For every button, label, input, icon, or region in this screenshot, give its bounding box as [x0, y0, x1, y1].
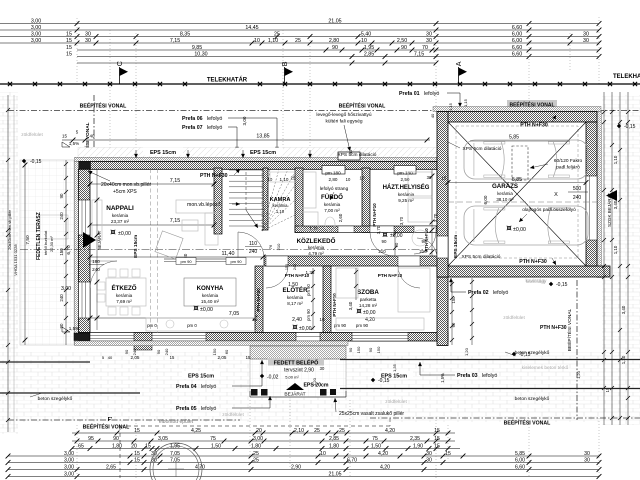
- armchair rotated nappali: [155, 231, 183, 259]
- level marker -0,15 at 519: [512, 352, 516, 356]
- svg-text:pm 90: pm 90: [356, 323, 369, 328]
- extension line x=77: [76, 18, 78, 84]
- bottom extension line x=529: [528, 418, 530, 478]
- svg-text:90: 90: [368, 347, 373, 352]
- svg-text:EPS 15cm: EPS 15cm: [133, 235, 139, 258]
- svg-text:1,95: 1,95: [364, 45, 374, 51]
- svg-text:7,15: 7,15: [414, 51, 424, 57]
- svg-text:150: 150: [59, 248, 64, 256]
- svg-text:90: 90: [124, 349, 129, 354]
- svg-text:kerámia: kerámia: [202, 293, 219, 298]
- svg-text:PTH N+F30: PTH N+F30: [540, 325, 567, 331]
- svg-text:±0,00: ±0,00: [118, 231, 131, 237]
- bath fixtures: [300, 172, 316, 208]
- wall bottom exterior: [79, 333, 449, 342]
- svg-text:6,00: 6,00: [515, 457, 525, 463]
- svg-text:elbontott épület: elbontott épület: [159, 419, 194, 425]
- svg-text:pm 90: pm 90: [230, 259, 242, 264]
- svg-text:EPS 15cm: EPS 15cm: [150, 150, 176, 156]
- svg-text:240: 240: [59, 294, 64, 302]
- label EPS 15cm top a: [143, 148, 183, 156]
- svg-text:6,60: 6,60: [512, 51, 522, 57]
- level -0,15 terrace: [22, 159, 26, 163]
- svg-text:40: 40: [430, 113, 435, 118]
- garage wall left: [437, 112, 448, 278]
- svg-text:3,00: 3,00: [64, 464, 74, 470]
- svg-text:38,10 m²: 38,10 m²: [496, 197, 514, 202]
- kamra shelves: [270, 172, 296, 182]
- label EPS 15cm b1: [182, 371, 220, 379]
- svg-text:±0,00: ±0,00: [299, 326, 312, 332]
- svg-text:240: 240: [132, 348, 137, 355]
- svg-text:240: 240: [92, 267, 100, 272]
- entry bejarat triangle: [286, 383, 304, 390]
- svg-text:15: 15: [66, 38, 72, 44]
- svg-text:-0,02: -0,02: [267, 375, 279, 381]
- svg-text:Prefa 05: Prefa 05: [176, 406, 197, 412]
- svg-text:110: 110: [249, 241, 257, 247]
- leader heat pump: [344, 125, 350, 151]
- car 1 garage: [464, 140, 588, 179]
- svg-text:8,35: 8,35: [180, 31, 190, 37]
- svg-text:7,69 m²: 7,69 m²: [116, 299, 132, 304]
- svg-text:90: 90: [59, 193, 64, 198]
- svg-text:90: 90: [401, 45, 407, 51]
- svg-text:30: 30: [583, 31, 589, 37]
- section flag C: [115, 61, 128, 84]
- svg-text:95: 95: [88, 436, 94, 442]
- door hazt: [414, 226, 436, 233]
- svg-text:40: 40: [108, 355, 113, 360]
- svg-text:3,00: 3,00: [31, 25, 41, 31]
- svg-text:25: 25: [314, 428, 320, 434]
- bottom extension line x=350: [349, 400, 351, 478]
- svg-text:1,35: 1,35: [392, 363, 397, 372]
- svg-text:240: 240: [59, 212, 64, 220]
- top dimension line 6: [66, 51, 601, 59]
- svg-text:30: 30: [85, 31, 91, 37]
- svg-text:30: 30: [584, 457, 590, 463]
- svg-text:9,25 m²: 9,25 m²: [398, 198, 414, 203]
- bottom extension line x=436: [435, 420, 437, 478]
- svg-text:pm 90: pm 90: [306, 284, 311, 296]
- curb line left bottom: [0, 392, 140, 394]
- svg-text:2,80: 2,80: [329, 177, 338, 182]
- curb line right top: [340, 359, 640, 361]
- dim line 13,85: [62, 139, 430, 141]
- garage wall right: [586, 122, 597, 266]
- svg-text:150: 150: [376, 346, 381, 353]
- svg-text:kerámia: kerámia: [287, 295, 304, 300]
- svg-text:1,15: 1,15: [463, 98, 468, 107]
- gravel strip above top wall: [78, 148, 448, 158]
- bottom dimension line 4: [6, 451, 602, 459]
- window box hazt top wall: [394, 166, 416, 175]
- svg-text:2,80: 2,80: [329, 38, 339, 44]
- interior dim chain 1: [64, 160, 68, 345]
- level marker garage: [507, 226, 512, 231]
- svg-text:1,10: 1,10: [276, 209, 285, 214]
- svg-text:térkő burkolat: térkő burkolat: [43, 230, 48, 255]
- svg-text:2,60: 2,60: [338, 213, 343, 222]
- building line bottom-left: [8, 419, 240, 421]
- svg-text:21,05: 21,05: [329, 471, 342, 477]
- svg-text:3,40: 3,40: [348, 301, 353, 310]
- svg-text:1,10: 1,10: [613, 245, 618, 254]
- svg-text:11,40: 11,40: [221, 251, 234, 257]
- top dimension line 2: [0, 25, 601, 33]
- svg-text:PTH N+F10: PTH N+F10: [378, 273, 403, 278]
- svg-text:TELEKHATÁR: TELEKHATÁR: [207, 77, 248, 84]
- svg-text:tervszint 2,90: tervszint 2,90: [284, 368, 314, 374]
- svg-text:6,60: 6,60: [512, 45, 522, 51]
- svg-text:SZOBA: SZOBA: [357, 289, 379, 296]
- svg-text:2,40: 2,40: [292, 317, 302, 323]
- svg-text:BEJÁRAT: BEJÁRAT: [97, 230, 102, 250]
- window kitchen bottom wall: [152, 333, 206, 342]
- svg-text:4,79 m²: 4,79 m²: [308, 251, 324, 256]
- svg-text:7,05: 7,05: [229, 311, 240, 317]
- extension line x=599: [598, 17, 600, 84]
- bottom extension line x=77: [76, 425, 78, 478]
- svg-text:BEÉPÍTÉSI VONAL: BEÉPÍTÉSI VONAL: [566, 308, 573, 351]
- paving texture left strip: [0, 92, 18, 434]
- bed szoba: [398, 268, 430, 312]
- level marker nappali: [111, 230, 116, 235]
- wall kamra-furdo: [295, 168, 303, 233]
- svg-text:±0,00: ±0,00: [390, 233, 403, 239]
- wall konyha-eloter: [255, 266, 263, 333]
- svg-text:10: 10: [254, 38, 260, 44]
- svg-text:5,85: 5,85: [509, 135, 519, 141]
- svg-text:4,20: 4,20: [378, 451, 388, 457]
- svg-text:75: 75: [372, 436, 378, 442]
- svg-text:GARÁZS: GARÁZS: [492, 183, 518, 190]
- axis dashed vertical b: [157, 169, 159, 333]
- svg-text:90: 90: [348, 347, 353, 352]
- svg-text:1,20: 1,20: [464, 347, 469, 356]
- window left wall upper: [79, 200, 91, 235]
- svg-text:7,15: 7,15: [170, 178, 181, 184]
- svg-text:65: 65: [78, 443, 84, 449]
- building line top-right: [437, 110, 640, 112]
- svg-text:15: 15: [434, 443, 440, 449]
- wall left exterior: [79, 169, 91, 332]
- svg-text:25: 25: [253, 451, 259, 457]
- svg-text:5: 5: [76, 130, 79, 135]
- extension line x=570: [569, 33, 571, 70]
- sofa nappali: [176, 200, 218, 213]
- tree cross: [168, 468, 184, 470]
- svg-text:1,80: 1,80: [251, 443, 261, 449]
- interior dim chain 3: [354, 268, 358, 300]
- terrace tile grid: [20, 160, 74, 345]
- svg-text:±0,00: ±0,00: [363, 310, 376, 316]
- axis dashed vertical a: [150, 169, 152, 333]
- demolished building outline: [120, 418, 390, 478]
- svg-text:25: 25: [253, 457, 259, 463]
- interior dim chain 6: [470, 278, 474, 345]
- svg-text:BEJÁRAT: BEJÁRAT: [284, 391, 305, 398]
- svg-text:kerámia: kerámia: [497, 191, 513, 196]
- garage diagonal 1: [448, 122, 586, 266]
- svg-text:3,40: 3,40: [621, 305, 626, 314]
- svg-text:EPS 15cm: EPS 15cm: [250, 150, 276, 156]
- svg-text:1,15: 1,15: [448, 102, 453, 111]
- label EPS 15cm top b: [243, 148, 283, 156]
- heat pump unit: [338, 152, 360, 160]
- svg-text:1,50: 1,50: [211, 443, 221, 449]
- svg-text:7,15: 7,15: [170, 218, 181, 224]
- door szoba-corridor: [398, 256, 420, 266]
- garage inner perimeter dashed: [456, 126, 578, 258]
- extension line x=110: [109, 30, 111, 152]
- door furdo: [370, 226, 394, 233]
- svg-text:60: 60: [224, 349, 229, 354]
- hazt fixtures: [408, 172, 432, 196]
- svg-text:40: 40: [348, 149, 353, 154]
- window szoba bottom wall: [352, 333, 408, 342]
- svg-text:5,00 m²: 5,00 m²: [285, 375, 299, 380]
- bejarat triangle terrace: [83, 232, 96, 248]
- staircase mon.vb.lepcso: [229, 169, 295, 231]
- svg-text:7,00 m²: 7,00 m²: [324, 208, 340, 213]
- svg-text:4,25: 4,25: [191, 428, 201, 434]
- svg-text:1,20: 1,20: [312, 377, 317, 386]
- svg-text:3,00: 3,00: [64, 457, 74, 463]
- bottom extension line x=599: [598, 418, 600, 478]
- svg-text:90: 90: [394, 242, 399, 247]
- interior dim chain 2: [311, 268, 315, 330]
- svg-text:20x40cm mon.vb.pillér: 20x40cm mon.vb.pillér: [101, 182, 151, 188]
- svg-text:parketta: parketta: [360, 297, 377, 302]
- svg-text:6,00: 6,00: [483, 195, 488, 204]
- svg-text:5,85: 5,85: [515, 451, 525, 457]
- svg-text:Prefa 04: Prefa 04: [176, 384, 197, 390]
- svg-text:+5cm XPS: +5cm XPS: [113, 189, 137, 195]
- building line bottom-right: [370, 417, 640, 419]
- svg-text:15: 15: [134, 457, 140, 463]
- svg-text:lefolyó: lefolyó: [201, 384, 216, 390]
- svg-text:X: X: [554, 192, 558, 198]
- svg-text:3,05: 3,05: [158, 436, 168, 442]
- extension line x=136: [135, 33, 137, 152]
- bottom dimension line 2: [72, 436, 455, 444]
- svg-text:BEÉPÍTÉSI VONAL: BEÉPÍTÉSI VONAL: [83, 423, 131, 431]
- door arc terrace door: [90, 261, 117, 288]
- svg-text:30: 30: [427, 175, 432, 180]
- svg-text:lefolyó: lefolyó: [482, 373, 497, 379]
- svg-text:-0,15: -0,15: [519, 352, 531, 358]
- svg-text:XPS 5cm dilatáció: XPS 5cm dilatáció: [462, 254, 501, 260]
- svg-text:3,00: 3,00: [31, 31, 41, 37]
- level marker konyha: [194, 306, 199, 311]
- svg-text:Prefa 06: Prefa 06: [182, 116, 203, 122]
- svg-text:PTH N+F30: PTH N+F30: [519, 259, 547, 265]
- svg-text:kerámia: kerámia: [116, 293, 133, 298]
- svg-text:zöldfelület: zöldfelület: [222, 412, 244, 418]
- svg-text:NAPPALI: NAPPALI: [106, 205, 134, 212]
- entry step lines: [250, 396, 346, 398]
- bottom extension line x=136: [135, 420, 137, 478]
- svg-text:3,00: 3,00: [31, 38, 41, 44]
- svg-text:10,30: 10,30: [194, 51, 207, 57]
- leader Prefa 07: [228, 126, 237, 128]
- svg-text:76: 76: [268, 244, 273, 249]
- level marker -0,15 at 378: [371, 378, 375, 382]
- top dimension line 3: [0, 31, 601, 39]
- leader Prefa 04: [232, 385, 262, 387]
- svg-text:240: 240: [249, 249, 258, 255]
- EPS band above top wall: [75, 157, 449, 161]
- svg-text:240: 240: [293, 264, 297, 270]
- svg-text:15: 15: [66, 51, 72, 57]
- svg-text:21,05: 21,05: [328, 18, 341, 24]
- svg-text:3,00: 3,00: [242, 116, 247, 125]
- wall furdo-hazt: [362, 168, 370, 233]
- label -0,02 entry: [260, 374, 264, 378]
- svg-text:pm 180: pm 180: [397, 171, 413, 176]
- svg-text:500: 500: [573, 186, 582, 192]
- right margin chain 1: [602, 92, 606, 425]
- svg-text:kavicságy: kavicságy: [526, 279, 547, 284]
- svg-text:4,20: 4,20: [380, 464, 390, 470]
- level marker hazt: [383, 232, 388, 237]
- svg-text:6,00: 6,00: [512, 31, 522, 37]
- svg-text:150: 150: [212, 348, 217, 355]
- building line top-left: [8, 110, 437, 112]
- svg-text:A: A: [454, 61, 463, 66]
- svg-text:beton szegélykő: beton szegélykő: [515, 396, 550, 402]
- svg-text:4,70: 4,70: [195, 464, 205, 470]
- svg-text:15,40 m²: 15,40 m²: [201, 299, 220, 304]
- pm boxes corridor wall: [176, 258, 196, 265]
- svg-text:30: 30: [85, 38, 91, 44]
- svg-text:2,35: 2,35: [410, 436, 420, 442]
- svg-text:KÖZLEKEDŐ: KÖZLEKEDŐ: [297, 238, 336, 245]
- svg-text:60: 60: [451, 322, 456, 327]
- right margin chain 3: [618, 92, 622, 425]
- svg-text:30: 30: [426, 457, 432, 463]
- svg-text:30: 30: [583, 38, 589, 44]
- svg-text:kerámia: kerámia: [273, 203, 289, 208]
- svg-text:240: 240: [164, 348, 169, 355]
- bottom dimension line 7: [6, 471, 602, 479]
- pillar 20x40 top-left corner: [79, 162, 91, 170]
- leader Prefa 05: [232, 407, 270, 409]
- level marker -0,15 at 556: [549, 282, 553, 286]
- svg-text:13,85: 13,85: [256, 134, 269, 140]
- svg-text:KONYHA: KONYHA: [197, 285, 224, 292]
- top dimension line 7: [77, 61, 438, 66]
- svg-text:ÉTKEZŐ: ÉTKEZŐ: [111, 284, 136, 292]
- svg-text:EPS 15cm: EPS 15cm: [453, 235, 459, 258]
- garage wall top: [437, 112, 597, 123]
- svg-text:TELEKHATÁR: TELEKHATÁR: [613, 73, 640, 80]
- terrace furniture: [40, 215, 68, 239]
- svg-text:15: 15: [170, 355, 175, 360]
- svg-text:15: 15: [66, 45, 72, 51]
- svg-text:padl.feljáró: padl.feljáró: [556, 165, 580, 171]
- svg-text:25x25cm vasalt zsalukő pillér: 25x25cm vasalt zsalukő pillér: [339, 411, 404, 417]
- extension line x=436: [435, 30, 437, 107]
- top dimension line 4: [0, 38, 601, 46]
- svg-text:9,85: 9,85: [192, 45, 202, 51]
- svg-text:pm 90: pm 90: [306, 309, 311, 321]
- svg-text:kerámia: kerámia: [308, 245, 325, 250]
- svg-text:FEDETLEN TERASZ: FEDETLEN TERASZ: [36, 212, 42, 260]
- svg-text:30: 30: [426, 451, 432, 457]
- wall pier below bottom wall: [134, 341, 152, 350]
- label BEEPITESI VONAL top-right: [507, 100, 557, 108]
- svg-text:-0,15: -0,15: [556, 282, 568, 288]
- svg-text:75: 75: [210, 436, 216, 442]
- bottom dimension line 6: [6, 464, 602, 472]
- svg-text:lefolyó: lefolyó: [207, 116, 222, 122]
- svg-text:2,85: 2,85: [329, 436, 339, 442]
- label EPS 15cm b2: [375, 371, 413, 379]
- svg-text:150: 150: [451, 296, 456, 304]
- svg-text:pm 180: pm 180: [325, 171, 341, 176]
- garage axis dashed: [448, 201, 597, 203]
- bottom dimension line 5: [6, 457, 602, 465]
- svg-text:7,15: 7,15: [170, 38, 180, 44]
- label EPS 20cm: [301, 381, 331, 388]
- wall stair-kamra: [263, 168, 268, 230]
- svg-text:PTH N+F30: PTH N+F30: [200, 173, 228, 179]
- svg-text:1,10: 1,10: [280, 177, 289, 182]
- property line TELEKHATAR: [0, 82, 640, 86]
- svg-text:1,10: 1,10: [613, 155, 618, 164]
- svg-text:15: 15: [134, 428, 140, 434]
- svg-text:2,10: 2,10: [294, 428, 304, 434]
- label FEDETT BELEPO: [268, 358, 324, 366]
- svg-text:180: 180: [92, 259, 100, 264]
- garage wall bottom: [437, 266, 610, 277]
- svg-text:B: B: [280, 61, 289, 66]
- svg-text:3,70: 3,70: [376, 225, 381, 234]
- svg-text:lefolyó strang: lefolyó strang: [320, 186, 349, 192]
- svg-text:1,50: 1,50: [371, 443, 381, 449]
- window box furdo top wall: [322, 166, 345, 175]
- svg-text:kerámia: kerámia: [324, 202, 341, 207]
- svg-text:Prefa 02: Prefa 02: [468, 290, 489, 296]
- counter edge corridor west: [164, 258, 238, 260]
- svg-text:10: 10: [346, 177, 351, 182]
- svg-text:C: C: [115, 61, 124, 66]
- svg-text:90: 90: [113, 436, 119, 442]
- bottom dimension line 3: [70, 443, 460, 451]
- svg-text:lefolyó: lefolyó: [493, 290, 508, 296]
- svg-text:EPS 15cm: EPS 15cm: [188, 374, 214, 380]
- section flag B: [280, 61, 293, 84]
- svg-text:lefolyó: lefolyó: [207, 125, 222, 131]
- svg-text:15: 15: [134, 451, 140, 457]
- leader Prefa 06: [228, 117, 277, 119]
- svg-text:2,85: 2,85: [364, 51, 374, 57]
- svg-text:-0,15: -0,15: [378, 378, 390, 384]
- EPS band below bottom wall: [75, 341, 349, 346]
- EPS band left of left wall: [75, 162, 79, 346]
- svg-text:70: 70: [422, 45, 428, 51]
- svg-text:7,50: 7,50: [25, 235, 31, 245]
- extension line x=283: [282, 30, 284, 152]
- level marker -0,15 at 624: [617, 124, 621, 128]
- svg-text:7,05: 7,05: [170, 451, 180, 457]
- svg-text:±0,00: ±0,00: [513, 227, 526, 233]
- paving texture bottom strip: [0, 352, 640, 422]
- svg-text:3,70: 3,70: [399, 216, 404, 225]
